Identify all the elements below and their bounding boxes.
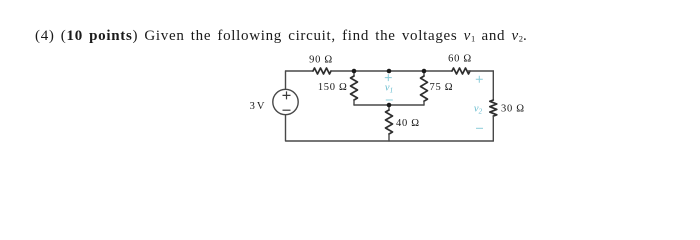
svg-text:40 Ω: 40 Ω: [396, 118, 420, 129]
v2 plus sign: [476, 76, 483, 83]
wire: right branch lower: [492, 116, 494, 141]
node dot at top of 40ohm: [387, 103, 392, 108]
node dot at top of 75ohm: [422, 69, 427, 74]
wire: 75ohm branch lower stub: [423, 101, 425, 105]
wire: 150ohm branch upper stub: [353, 71, 355, 76]
svg-text:3 V: 3 V: [250, 101, 265, 112]
svg-text:v1: v1: [385, 83, 393, 95]
wire: top rail right segment: [468, 70, 493, 72]
wire: left branch lower: [285, 115, 287, 141]
wire: top rail middle segment: [331, 70, 452, 72]
resistor R 30ohm zigzag: [490, 100, 497, 116]
svg-text:150 Ω: 150 Ω: [318, 82, 348, 93]
v2 minus sign: [476, 127, 483, 129]
voltage source polarity marks: [283, 91, 291, 110]
wire: 150ohm branch lower stub: [353, 100, 355, 105]
wire: left branch upper: [285, 71, 287, 89]
wire: 40ohm branch lower stub: [388, 134, 390, 141]
node dot at top of 150ohm: [352, 69, 357, 74]
problem statement text: [35, 28, 528, 44]
resistor R 150ohm zigzag: [351, 76, 358, 100]
wire: middle rail: [354, 104, 424, 106]
node dot at v1 top: [387, 69, 392, 74]
resistor R 60ohm zigzag: [452, 68, 470, 74]
wire: 75ohm branch upper stub: [423, 71, 425, 76]
svg-text:30 Ω: 30 Ω: [501, 104, 525, 115]
svg-text:75 Ω: 75 Ω: [430, 82, 454, 93]
wire: bottom rail: [286, 140, 493, 142]
wire: top rail left segment: [286, 70, 313, 72]
voltage source V1 circle: [273, 89, 298, 114]
v1 plus sign: [385, 74, 392, 81]
resistor R 75ohm zigzag: [421, 76, 428, 101]
resistor R 90ohm zigzag: [313, 68, 331, 74]
wire: right branch upper: [492, 71, 494, 100]
svg-text:v2: v2: [474, 104, 483, 116]
svg-text:90 Ω: 90 Ω: [309, 55, 333, 66]
resistor R 40ohm zigzag: [386, 110, 393, 134]
svg-text:60 Ω: 60 Ω: [448, 54, 472, 65]
v1 minus sign: [386, 99, 393, 101]
wire: 40ohm branch upper stub: [388, 105, 390, 110]
